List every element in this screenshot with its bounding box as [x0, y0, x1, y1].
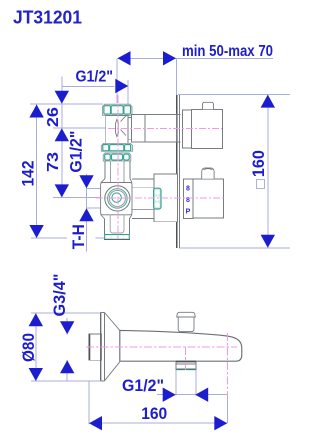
svg-text:G1/2": G1/2" — [67, 131, 85, 173]
bottom knob body — [193, 179, 224, 218]
arrow 142 top — [29, 105, 43, 118]
diverter knob body — [178, 317, 194, 332]
bottom knob cap — [202, 168, 214, 179]
svg-text:160: 160 — [250, 150, 268, 177]
label G1/2 top — [62, 69, 129, 94]
extension line wall vertical top — [175, 58, 177, 95]
dimension min 50-max 70 — [118, 43, 274, 65]
wall line front — [176, 95, 178, 248]
svg-text:G1/2": G1/2" — [76, 69, 114, 86]
dimension 142 line — [36, 105, 38, 239]
centerline nozzle vertical — [185, 347, 187, 370]
svg-text:JT31201: JT31201 — [13, 8, 82, 28]
cartridge housing at wall — [154, 174, 178, 222]
side port center hole — [112, 193, 121, 202]
label G1/2 side / T-H line — [86, 174, 88, 252]
svg-text:min 50-max 70: min 50-max 70 — [182, 43, 273, 60]
lower inner cartridge — [110, 215, 124, 234]
label G1/2 bottom — [122, 377, 227, 402]
arrow T-H — [79, 208, 93, 221]
arrow G3/4 bottom — [60, 360, 74, 373]
arrow G3/4 top — [60, 321, 74, 334]
dimension 160 right — [250, 95, 275, 248]
svg-text:142: 142 — [20, 161, 38, 187]
spout thread stub G3/4 — [89, 334, 102, 360]
extension line side port bottom — [87, 207, 107, 209]
arrow 26 bottom / 73 top — [55, 128, 69, 141]
arrow 142 bottom — [29, 225, 43, 238]
upper body inner tube — [110, 161, 124, 186]
extension line top pipe center — [53, 127, 106, 129]
extension line flange bottom — [31, 380, 100, 382]
spout flange cone — [105, 313, 120, 381]
extension line inlet axis vertical — [116, 58, 118, 103]
wall line back — [178, 95, 180, 248]
extension line handle center — [53, 197, 100, 199]
arrow O80 top — [29, 313, 43, 326]
centerline spout outlet vertical — [227, 333, 229, 396]
centerline vertical valve axis — [117, 95, 119, 239]
svg-text:P: P — [186, 209, 191, 216]
svg-text:26: 26 — [45, 107, 62, 127]
body shoulders upper — [101, 179, 132, 183]
bottom knob temperature markings — [186, 186, 191, 216]
dimension 26 / 73 line — [61, 77, 63, 198]
spout body — [120, 330, 242, 361]
top union block — [132, 114, 146, 142]
svg-text:G3/4": G3/4" — [50, 274, 69, 317]
svg-text:160: 160 — [141, 405, 167, 423]
extension line wall bottom right — [179, 247, 290, 249]
extension line fitting edge vertical — [127, 80, 129, 104]
hex nut 3 — [103, 153, 131, 161]
lower tube outer — [105, 219, 130, 235]
neck to housing — [132, 179, 154, 219]
centerline spout axis — [86, 346, 237, 348]
svg-text:T-H: T-H — [70, 224, 88, 249]
hex nut 2 — [101, 143, 132, 151]
check valve seat diagonals — [121, 116, 127, 136]
svg-text:Ø80: Ø80 — [20, 333, 38, 362]
extension line spout thread left — [88, 381, 90, 424]
top supply pipe stub — [128, 118, 132, 140]
top knob body — [192, 109, 223, 148]
top hex nut — [103, 104, 133, 115]
svg-text:73: 73 — [45, 152, 62, 172]
diverter knob cap — [177, 312, 196, 317]
top knob flange — [182, 110, 191, 148]
centerline handle axis — [96, 197, 224, 199]
extension line valve bottom — [31, 237, 104, 239]
bottom outlet nut band — [104, 235, 130, 240]
neck inner pipe lines — [131, 188, 154, 210]
upper body tube — [105, 161, 130, 179]
arrow 73 bottom — [55, 184, 69, 197]
dimension O80 line — [35, 313, 37, 381]
bottom knob flange — [184, 179, 194, 218]
extension line nozzle right — [195, 370, 197, 396]
lower body shoulders — [101, 215, 132, 220]
centerline top pipe — [108, 127, 222, 129]
valve body slab — [101, 183, 132, 215]
dimension 160 bottom — [89, 405, 228, 431]
arrow O80 bottom — [29, 368, 43, 381]
side port thread ring — [108, 189, 128, 209]
top block edge stubs through wall — [177, 115, 181, 142]
spout wall flange disc — [100, 313, 102, 381]
extension line side port top — [87, 187, 107, 189]
arrow G1/2 side — [79, 175, 93, 188]
top wall block — [145, 114, 177, 142]
check valve poppet — [116, 120, 119, 137]
label G3/4 line — [66, 318, 68, 381]
svg-text:8: 8 — [186, 186, 190, 193]
svg-text:G1/2": G1/2" — [122, 377, 164, 395]
side port outer circle — [105, 186, 130, 211]
arrow 26 top — [55, 91, 69, 104]
top knob cap — [203, 102, 214, 109]
extension line wall top right — [178, 94, 290, 96]
check valve fitting body — [106, 115, 128, 143]
extension line nut top — [30, 103, 103, 105]
extension line flange top — [31, 312, 100, 314]
hand shower nozzle — [176, 361, 196, 370]
housing nut strip — [154, 188, 161, 209]
extension line nozzle left — [175, 370, 177, 396]
side port inner face — [109, 190, 125, 206]
